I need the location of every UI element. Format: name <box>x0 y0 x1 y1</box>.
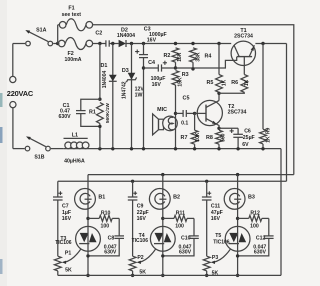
diode D2 1N4004 <box>119 40 126 47</box>
node <box>174 66 177 69</box>
thyristor T5 TIC106 <box>225 226 250 251</box>
resistor R10 100 <box>88 217 99 219</box>
svg-text:2SC734: 2SC734 <box>228 109 247 115</box>
svg-text:F1: F1 <box>68 5 74 11</box>
svg-text:100: 100 <box>250 223 259 229</box>
wire trigger line <box>58 180 287 182</box>
capacitor C8 0.047 630V <box>118 218 120 236</box>
wire <box>12 108 14 149</box>
svg-text:C10: C10 <box>181 235 191 241</box>
svg-text:R4: R4 <box>205 54 212 60</box>
inductor L1 40uH/6A <box>64 137 88 139</box>
svg-text:0.1: 0.1 <box>181 120 188 126</box>
wire <box>99 44 101 100</box>
resistor R3 15K <box>172 71 179 85</box>
node <box>98 98 101 101</box>
node trigger line <box>131 180 134 183</box>
svg-text:630V: 630V <box>59 114 72 120</box>
lamp B1 <box>75 189 96 210</box>
capacitor C10 0.047 630V <box>193 218 195 236</box>
node bottom rail <box>205 274 208 277</box>
svg-text:B1: B1 <box>98 195 105 201</box>
transistor T1 2SC734 <box>231 41 255 65</box>
resistor R9 1K <box>261 42 264 45</box>
svg-text:R5: R5 <box>206 80 213 86</box>
fuse F1 <box>59 22 66 29</box>
svg-text:16V: 16V <box>137 216 147 222</box>
wire rail down to trigger line <box>286 44 288 182</box>
wire F1 output to right edge <box>92 25 294 175</box>
svg-text:R2: R2 <box>163 53 170 59</box>
svg-text:C11: C11 <box>211 204 220 210</box>
wire <box>53 43 58 45</box>
wire mic node <box>175 113 177 148</box>
wire <box>57 25 59 44</box>
resistor R8 560 <box>217 127 220 130</box>
svg-text:10K: 10K <box>195 132 201 142</box>
svg-text:C8: C8 <box>108 235 115 241</box>
wire neutral down right side <box>280 149 282 276</box>
svg-text:33K: 33K <box>195 52 201 62</box>
svg-text:S1A: S1A <box>36 28 46 34</box>
svg-text:R12: R12 <box>250 211 260 217</box>
resistor R1 560K/1W <box>97 103 104 124</box>
thyristor T4 TIC106 <box>150 226 175 251</box>
svg-text:R8: R8 <box>206 135 213 141</box>
svg-text:25µF: 25µF <box>243 135 255 141</box>
svg-text:630V: 630V <box>179 250 192 256</box>
wire T1 base line <box>176 57 237 68</box>
svg-text:R10: R10 <box>101 211 111 217</box>
potentiometer P3 5K <box>203 256 210 271</box>
potentiometer P1 5K <box>54 256 61 271</box>
diode D1 1N4004 <box>111 42 114 45</box>
snubber node <box>86 217 89 220</box>
mic speaker symbol <box>153 114 159 135</box>
svg-text:TIC106: TIC106 <box>213 240 230 246</box>
node <box>98 42 101 45</box>
node <box>98 125 101 128</box>
svg-text:TIC106: TIC106 <box>132 238 149 244</box>
node bottom rail <box>131 274 134 277</box>
svg-text:560K/1W: 560K/1W <box>105 103 111 123</box>
node lamp bus <box>236 173 239 176</box>
svg-text:R7: R7 <box>181 135 188 141</box>
svg-text:2SC734: 2SC734 <box>234 34 253 40</box>
svg-text:C4: C4 <box>148 60 155 66</box>
lamp B3 <box>224 189 245 210</box>
svg-text:100: 100 <box>100 223 109 229</box>
wire <box>51 148 64 150</box>
node <box>217 92 220 95</box>
wire lamp bus <box>88 174 294 176</box>
capacitor C1 0.47 630V <box>81 99 100 110</box>
svg-text:R3: R3 <box>182 72 189 78</box>
terminal 220VAC upper <box>26 41 31 46</box>
svg-text:1N4742: 1N4742 <box>122 81 128 99</box>
wire cathode <box>87 226 89 275</box>
svg-text:P1: P1 <box>65 250 71 256</box>
svg-text:C5: C5 <box>183 96 190 102</box>
capacitor C12 0.047 630V <box>268 218 270 236</box>
svg-text:40µH/6A: 40µH/6A <box>64 158 85 164</box>
svg-text:R11: R11 <box>176 211 185 217</box>
wire lamp/anode <box>87 175 89 227</box>
svg-text:R6: R6 <box>231 80 238 86</box>
svg-text:220VAC: 220VAC <box>7 89 34 98</box>
svg-text:C6: C6 <box>244 129 251 135</box>
wire cathode <box>162 226 164 275</box>
capacitor C11 47uF <box>206 181 208 197</box>
resistor R11 100 <box>163 217 174 219</box>
node junction <box>56 42 59 45</box>
potentiometer P2 5K <box>129 256 136 271</box>
svg-text:P3: P3 <box>212 255 218 261</box>
wire <box>109 43 118 45</box>
svg-text:5K: 5K <box>65 267 72 273</box>
resistor R6 1K <box>241 75 248 93</box>
svg-text:16V: 16V <box>152 82 162 88</box>
svg-text:630V: 630V <box>254 250 267 256</box>
resistor R5 1K <box>217 42 220 45</box>
svg-text:B2: B2 <box>173 195 180 201</box>
neutral junction dots <box>98 147 101 150</box>
wire <box>13 43 25 45</box>
capacitor C2 <box>105 40 107 46</box>
svg-text:16V: 16V <box>211 216 221 222</box>
svg-text:1K: 1K <box>266 136 272 143</box>
wire cathode <box>237 226 239 275</box>
lamp B2 <box>149 189 170 210</box>
snubber node <box>161 217 164 220</box>
svg-text:1N4004: 1N4004 <box>117 33 135 39</box>
switch S1A <box>48 41 53 46</box>
svg-text:6V: 6V <box>242 142 249 148</box>
capacitor C7 1uF <box>57 181 59 197</box>
capacitor C4 100uF <box>142 66 145 69</box>
svg-text:630V: 630V <box>104 250 117 256</box>
svg-text:1W: 1W <box>135 92 143 98</box>
thyristor T3 TIC106 <box>76 226 101 251</box>
svg-text:560: 560 <box>220 133 226 142</box>
node lamp bus <box>161 173 164 176</box>
svg-text:S1B: S1B <box>34 154 44 160</box>
svg-text:L1: L1 <box>72 133 78 139</box>
svg-text:1K: 1K <box>222 79 228 86</box>
svg-text:C9: C9 <box>137 204 144 210</box>
wire lamp/anode <box>237 175 239 227</box>
terminal <box>10 76 16 82</box>
wire bottom rail <box>58 274 281 276</box>
zener D3 1N4742 <box>130 42 133 45</box>
svg-text:15K: 15K <box>177 52 183 62</box>
gate wire to pot P1 <box>64 249 81 262</box>
svg-text:D1: D1 <box>100 63 107 69</box>
node trigger line <box>205 180 208 183</box>
svg-text:15K: 15K <box>177 77 183 87</box>
svg-text:1N4004: 1N4004 <box>102 71 108 89</box>
svg-text:1K: 1K <box>244 79 250 86</box>
resistor R7 10K <box>194 113 196 130</box>
svg-text:100: 100 <box>175 223 184 229</box>
gate wire to pot P2 <box>139 249 156 262</box>
wire lamp/anode <box>162 175 164 227</box>
svg-text:T5: T5 <box>215 233 221 239</box>
capacitor C5 0.1 <box>176 112 184 114</box>
capacitor C9 22uF <box>132 181 134 197</box>
snubber node <box>236 217 239 220</box>
wire emitter line <box>219 127 238 129</box>
resistor R12 100 <box>238 217 249 219</box>
switch S1B <box>25 146 30 151</box>
svg-text:R1: R1 <box>89 109 96 115</box>
fuse F2 <box>58 40 65 47</box>
resistor R2 15K <box>174 42 177 45</box>
wire <box>92 43 106 45</box>
resistor R4 33K <box>190 48 197 62</box>
svg-text:100mA: 100mA <box>64 57 81 63</box>
svg-text:R9: R9 <box>266 127 272 134</box>
svg-text:B3: B3 <box>248 195 255 201</box>
svg-text:16V: 16V <box>62 216 72 222</box>
svg-text:TIC106: TIC106 <box>55 240 72 246</box>
svg-text:P2: P2 <box>137 255 143 261</box>
svg-text:C2: C2 <box>95 30 102 36</box>
terminal <box>10 102 16 108</box>
svg-text:C12: C12 <box>256 235 266 241</box>
wire DC rail <box>126 43 231 45</box>
capacitor C6 25uF <box>237 128 239 134</box>
svg-text:16V: 16V <box>147 37 157 43</box>
svg-text:D3: D3 <box>122 68 129 74</box>
node <box>191 42 194 45</box>
transistor T2 2SC734 <box>193 112 196 115</box>
svg-text:MIC: MIC <box>157 107 167 113</box>
capacitor C3 1000uF <box>142 42 145 45</box>
svg-text:see text: see text <box>62 12 82 18</box>
svg-text:C7: C7 <box>62 204 69 210</box>
gate wire to pot P3 <box>213 249 230 262</box>
